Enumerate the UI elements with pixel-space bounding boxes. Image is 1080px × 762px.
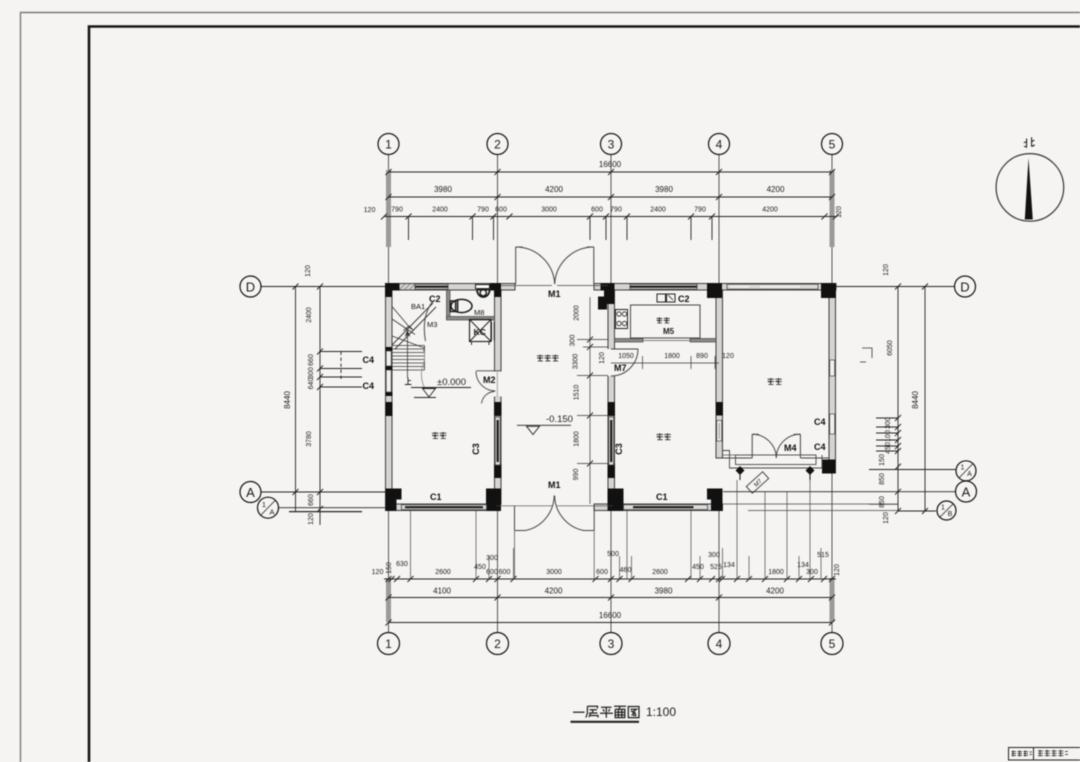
svg-text:100: 100 [885, 430, 892, 442]
svg-text:3980: 3980 [655, 185, 673, 194]
svg-text:120: 120 [836, 206, 843, 218]
svg-text:640: 640 [308, 378, 315, 390]
svg-text:600: 600 [499, 569, 511, 576]
svg-text:C4: C4 [814, 442, 826, 452]
svg-text:1: 1 [262, 500, 266, 509]
svg-text:120: 120 [834, 564, 841, 576]
svg-text:1510: 1510 [574, 385, 581, 401]
svg-text:C2: C2 [429, 294, 441, 304]
svg-text:300: 300 [708, 552, 720, 559]
svg-text:450: 450 [692, 564, 704, 571]
svg-text:M5: M5 [663, 327, 675, 336]
svg-text:120: 120 [372, 569, 384, 576]
svg-text:525: 525 [710, 564, 722, 571]
svg-text:-0.150: -0.150 [546, 414, 573, 425]
svg-text:1: 1 [941, 505, 945, 512]
svg-text:C3: C3 [614, 443, 624, 455]
svg-text:850: 850 [879, 496, 886, 508]
svg-text:2000: 2000 [574, 305, 581, 321]
svg-text:1800: 1800 [664, 353, 680, 360]
svg-text:M1: M1 [548, 289, 561, 299]
svg-text:120: 120 [305, 265, 312, 277]
svg-text:M8: M8 [474, 308, 484, 317]
svg-text:1: 1 [385, 138, 392, 152]
svg-text:4200: 4200 [762, 207, 778, 214]
svg-text:A: A [962, 485, 971, 500]
svg-text:600: 600 [591, 207, 603, 214]
svg-text:4200: 4200 [545, 185, 563, 194]
svg-text:4200: 4200 [766, 587, 784, 596]
svg-text:3000: 3000 [546, 569, 562, 576]
svg-text:A: A [269, 508, 274, 517]
svg-text:B: B [948, 511, 953, 518]
svg-text:450: 450 [885, 442, 892, 454]
svg-text:790: 790 [694, 207, 706, 214]
svg-text:134: 134 [723, 562, 735, 569]
svg-text:630: 630 [396, 561, 408, 568]
svg-text:M4: M4 [784, 443, 797, 453]
svg-text:120: 120 [364, 207, 376, 214]
svg-text:3000: 3000 [541, 207, 557, 214]
svg-text:150: 150 [879, 454, 886, 466]
svg-text:A: A [967, 471, 972, 478]
svg-text:4: 4 [716, 637, 723, 651]
svg-text:2600: 2600 [435, 569, 451, 576]
svg-text:1: 1 [385, 637, 392, 651]
svg-text:3980: 3980 [655, 587, 673, 596]
svg-text:KC: KC [474, 327, 486, 337]
svg-text:2: 2 [494, 138, 501, 152]
svg-text:M1: M1 [548, 480, 561, 490]
svg-text:3: 3 [608, 138, 615, 152]
svg-text:16600: 16600 [599, 160, 622, 169]
svg-text:C4: C4 [814, 417, 826, 427]
svg-text:8440: 8440 [283, 391, 292, 409]
svg-text:515: 515 [817, 552, 829, 559]
svg-text:5: 5 [829, 637, 836, 651]
svg-text:D: D [246, 280, 255, 295]
svg-text:BA1: BA1 [411, 302, 425, 311]
svg-text:C3: C3 [471, 443, 481, 455]
svg-text:150: 150 [386, 562, 393, 574]
svg-text:1: 1 [961, 465, 965, 472]
svg-text:300: 300 [885, 417, 892, 429]
svg-text:1800: 1800 [768, 569, 784, 576]
svg-text:600: 600 [495, 207, 507, 214]
svg-text:120: 120 [722, 353, 734, 360]
svg-text:600: 600 [486, 569, 498, 576]
svg-text:M2: M2 [483, 375, 496, 385]
svg-text:6050: 6050 [887, 340, 894, 356]
svg-text:460: 460 [620, 567, 632, 574]
svg-text:M3: M3 [427, 320, 437, 329]
svg-text:120: 120 [883, 512, 890, 524]
svg-text:300: 300 [486, 555, 498, 562]
svg-text:120: 120 [883, 264, 890, 276]
svg-text:2: 2 [494, 637, 501, 651]
svg-text:5: 5 [829, 138, 836, 152]
svg-text:3300: 3300 [573, 354, 580, 370]
svg-text:3780: 3780 [306, 431, 313, 447]
svg-text:300: 300 [308, 367, 315, 379]
svg-text:890: 890 [696, 353, 708, 360]
svg-text:4: 4 [716, 138, 723, 152]
svg-text:450: 450 [474, 564, 486, 571]
svg-text:790: 790 [477, 207, 489, 214]
svg-text:120: 120 [599, 352, 606, 364]
svg-text:C1: C1 [430, 492, 442, 502]
svg-text:1800: 1800 [574, 431, 581, 447]
svg-text:790: 790 [610, 207, 622, 214]
svg-text:660: 660 [308, 494, 315, 506]
svg-text:2600: 2600 [652, 569, 668, 576]
svg-text:660: 660 [308, 354, 315, 366]
svg-text:2400: 2400 [306, 307, 313, 323]
svg-text:2400: 2400 [650, 207, 666, 214]
svg-text:990: 990 [573, 469, 580, 481]
svg-text:4200: 4200 [767, 185, 785, 194]
svg-text:1050: 1050 [618, 353, 634, 360]
svg-text:300: 300 [806, 569, 818, 576]
svg-text:120: 120 [308, 513, 315, 525]
svg-text:134: 134 [797, 562, 809, 569]
svg-text:C1: C1 [656, 492, 668, 502]
svg-text:C2: C2 [678, 294, 690, 304]
svg-text:500: 500 [607, 551, 619, 558]
svg-text:600: 600 [596, 569, 608, 576]
svg-text:D: D [960, 280, 969, 295]
svg-text:2400: 2400 [432, 207, 448, 214]
svg-text:790: 790 [391, 207, 403, 214]
svg-text:C4: C4 [362, 381, 374, 391]
svg-text:1:100: 1:100 [646, 705, 676, 719]
svg-text:M7: M7 [614, 363, 627, 373]
svg-text:±0.000: ±0.000 [437, 377, 466, 388]
svg-text:3: 3 [608, 637, 615, 651]
svg-text:4100: 4100 [433, 587, 451, 596]
svg-text:3980: 3980 [434, 185, 452, 194]
svg-text:300: 300 [570, 335, 577, 347]
svg-text:4200: 4200 [545, 587, 563, 596]
svg-text:C4: C4 [362, 355, 374, 365]
svg-text:A: A [246, 485, 255, 500]
svg-text:850: 850 [879, 473, 886, 485]
svg-text:16600: 16600 [599, 611, 622, 620]
svg-text:8440: 8440 [911, 391, 920, 409]
